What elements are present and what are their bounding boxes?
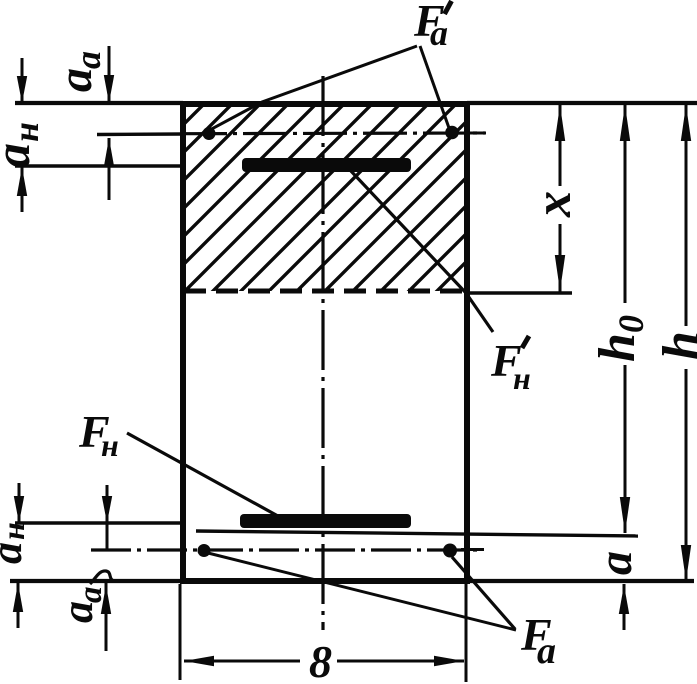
h0 up arrowhead [620, 105, 630, 141]
label Fn (bottom left) [78, 406, 119, 463]
svg-text:а: а [53, 601, 102, 623]
label h (rotated) [653, 331, 697, 360]
vertical centre line (dash-dot) [321, 76, 324, 630]
bottom-right bar dot Fa [443, 544, 457, 558]
dimension a_a bottom: up arrow at x=106 [105, 583, 108, 651]
bottom-left bar dot Fa [198, 544, 211, 557]
bottom prestressed bar level line (a_n) [15, 521, 183, 524]
label a right (rotated) [589, 551, 642, 575]
svg-text:а: а [73, 587, 109, 604]
leader Fa shallow (to left dot) [204, 552, 516, 630]
svg-text:а: а [589, 551, 642, 575]
svg-text:8: 8 [309, 636, 332, 684]
bottom reinforcement bar Fn (thick) [240, 514, 411, 528]
dimension h0: vertical line at x=625 [624, 104, 627, 303]
b dimension line left segment with left arrowhead [184, 660, 300, 663]
top edge extension line left [15, 101, 183, 105]
axis line of top bars (dash-dot) [97, 132, 183, 136]
dashed line extension right [467, 291, 572, 294]
x down arrowhead [555, 255, 565, 291]
label a_a top (rotated) [49, 51, 108, 92]
svg-text:н: н [513, 360, 531, 396]
svg-text:а: а [430, 13, 448, 53]
label Fa (bottom right) [520, 609, 556, 672]
dashed neutral-axis line (bottom of hatched zone) [184, 289, 467, 294]
b dimension line right segment with right arrowhead [337, 660, 464, 663]
h up arrowhead [681, 105, 691, 141]
top-right bar dot F'a [445, 126, 459, 140]
svg-text:н: н [0, 522, 31, 540]
leader F'a to right dot [420, 46, 449, 128]
dimension b: extension line right [465, 584, 468, 682]
label a_n top (rotated) [0, 122, 46, 168]
dimension a_n top: down arrow at x=22 [21, 58, 24, 103]
h0 level line [196, 531, 638, 536]
x up arrowhead [555, 105, 565, 141]
top edge extension line right [467, 101, 697, 105]
axis line of bottom bars (dash-dot) [91, 548, 483, 551]
h down arrowhead [681, 545, 691, 581]
hatched compression zone fill [185, 106, 465, 291]
top reinforcement bar F'n (thick) [242, 158, 411, 172]
dimension b: extension line left [179, 584, 182, 680]
dimension a_a top: down arrow at x=109 [108, 46, 111, 103]
dimension a_n bottom: up arrow at x=18 [17, 583, 20, 628]
leader F'n from bar to label [350, 170, 493, 332]
leader Fn from label to bar [127, 433, 287, 521]
label a_a bottom (rotated) [53, 587, 109, 624]
svg-text:н: н [101, 427, 119, 463]
dimension a_a top: up arrow at x=109 [108, 138, 111, 200]
bottom edge extension line right [467, 579, 694, 583]
svg-text:а: а [49, 68, 102, 92]
svg-text:x: x [525, 191, 582, 218]
svg-text:а: а [0, 542, 31, 564]
svg-text:h: h [589, 333, 646, 362]
dimension x: vertical line at x=560 [559, 104, 562, 186]
dimension a: up arrow below bottom edge at x=624 [623, 584, 626, 630]
beam section outline [183, 104, 467, 581]
svg-text:0: 0 [611, 315, 651, 333]
dimension a_n bottom: down arrow at x=19 [18, 483, 21, 523]
svg-text:а: а [537, 630, 556, 672]
svg-text:h: h [653, 331, 697, 360]
label x (rotated) [525, 191, 582, 218]
break squiggle on bottom-left extension [90, 571, 114, 584]
dimension a_a bottom: down arrow at x=107 [106, 485, 109, 549]
top-left bar dot F'a [203, 127, 216, 140]
svg-text:н: н [6, 122, 46, 142]
bottom edge extension line left [10, 579, 183, 583]
label a_n bottom (rotated) [0, 522, 31, 564]
label F'n [490, 335, 531, 396]
dimension a_n top: up arrow at x=22 [21, 167, 24, 212]
label h0 (rotated) [589, 315, 651, 362]
h0 down arrowhead [620, 497, 630, 533]
svg-text:а: а [0, 143, 40, 168]
label F'a [413, 0, 452, 53]
leader F'a to left dot [206, 46, 417, 132]
leader Fa steep (to right dot) [452, 557, 515, 629]
dimension h: vertical line at x=686 [685, 104, 688, 326]
svg-text:а: а [68, 51, 108, 69]
top prestressed bar level line (a_n) [15, 164, 183, 167]
